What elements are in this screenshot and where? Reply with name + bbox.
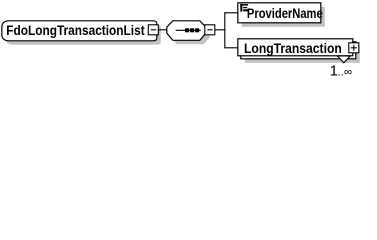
svg-text:LongTransaction: LongTransaction: [244, 40, 342, 56]
svg-text:1..∞: 1..∞: [330, 63, 353, 79]
svg-text:FdoLongTransactionList: FdoLongTransactionList: [6, 22, 145, 38]
svg-text:ProviderName: ProviderName: [247, 6, 323, 21]
